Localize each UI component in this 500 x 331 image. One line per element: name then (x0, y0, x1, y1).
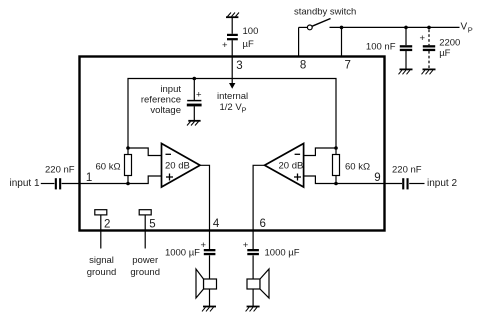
svg-text:5: 5 (149, 218, 155, 230)
svg-text:60 kΩ: 60 kΩ (345, 162, 370, 173)
svg-text:1000 µF: 1000 µF (265, 248, 300, 259)
svg-text:220 nF: 220 nF (392, 165, 422, 176)
svg-text:3: 3 (236, 60, 242, 72)
svg-text:+: + (196, 90, 202, 101)
svg-text:V: V (461, 22, 468, 33)
svg-text:power: power (132, 255, 158, 266)
svg-text:standby switch: standby switch (294, 7, 356, 18)
svg-text:100 nF: 100 nF (366, 42, 396, 53)
svg-text:2200: 2200 (439, 38, 460, 49)
svg-text:+: + (420, 33, 426, 44)
svg-text:9: 9 (374, 172, 380, 184)
svg-text:+: + (222, 40, 228, 51)
svg-text:100: 100 (243, 26, 259, 37)
svg-text:+: + (243, 240, 249, 251)
svg-text:220 nF: 220 nF (45, 165, 75, 176)
svg-text:20 dB: 20 dB (279, 161, 304, 172)
svg-text:4: 4 (213, 218, 220, 230)
svg-text:1: 1 (86, 172, 92, 184)
svg-text:signal: signal (89, 255, 114, 266)
svg-text:+: + (201, 240, 207, 251)
svg-text:µF: µF (439, 48, 450, 59)
svg-text:1/2 V: 1/2 V (220, 102, 243, 113)
svg-text:1000 µF: 1000 µF (165, 248, 200, 259)
svg-text:60 kΩ: 60 kΩ (96, 162, 121, 173)
svg-text:ground: ground (87, 267, 117, 278)
svg-text:P: P (468, 26, 473, 35)
svg-text:voltage: voltage (150, 105, 181, 116)
svg-text:ground: ground (130, 267, 160, 278)
svg-text:µF: µF (243, 39, 254, 50)
svg-text:20 dB: 20 dB (165, 161, 190, 172)
svg-text:internal: internal (217, 91, 248, 102)
svg-text:7: 7 (345, 60, 351, 72)
svg-text:input 2: input 2 (427, 178, 457, 189)
svg-text:input 1: input 1 (10, 178, 40, 189)
svg-text:P: P (242, 106, 247, 115)
svg-text:6: 6 (260, 218, 266, 230)
svg-text:8: 8 (300, 60, 306, 72)
svg-text:2: 2 (104, 218, 110, 230)
svg-text:reference: reference (141, 94, 181, 105)
svg-text:input: input (160, 84, 181, 95)
